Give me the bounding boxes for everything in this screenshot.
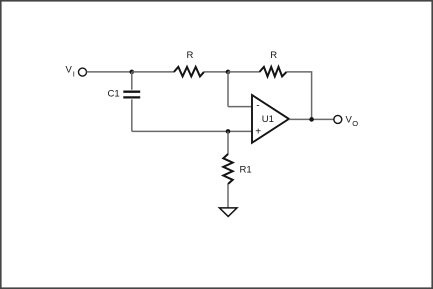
wire node A to resistor R xyxy=(132,71,175,73)
svg-text:I: I xyxy=(73,69,75,78)
wire feedback resistor to corner xyxy=(287,71,313,73)
wire R to node B xyxy=(204,71,228,73)
wire node B down to - input xyxy=(227,72,229,107)
node D junction dot xyxy=(309,117,314,122)
op-amp U1 xyxy=(252,95,289,143)
wire Vi to node A xyxy=(87,71,132,73)
resistor R1 xyxy=(223,154,232,184)
wire to op-amp - input xyxy=(228,106,252,108)
svg-text:R: R xyxy=(187,50,194,61)
wire bottom rail to op-amp + input xyxy=(132,130,252,132)
svg-text:O: O xyxy=(352,119,358,128)
wire feedback corner down to output node xyxy=(311,71,313,119)
resistor R (feedback) xyxy=(260,67,287,77)
svg-text:R1: R1 xyxy=(240,165,252,176)
svg-text:C1: C1 xyxy=(108,88,120,99)
label Vi xyxy=(66,65,75,79)
wire node B to feedback resistor xyxy=(228,71,260,73)
svg-text:-: - xyxy=(256,101,259,112)
svg-text:U1: U1 xyxy=(262,114,274,125)
node C junction dot xyxy=(226,129,231,134)
svg-text:V: V xyxy=(66,65,73,76)
wire node C down to R1 xyxy=(227,131,229,154)
node A junction dot xyxy=(130,70,135,75)
node B junction dot xyxy=(226,70,231,75)
ground xyxy=(219,208,237,217)
node Vi terminal xyxy=(79,68,87,76)
svg-text:+: + xyxy=(255,126,261,137)
wire R1 to ground xyxy=(227,184,229,208)
node Vo terminal xyxy=(334,115,342,123)
label Vo xyxy=(346,114,359,128)
resistor R (input) xyxy=(174,67,204,77)
svg-text:R: R xyxy=(270,50,277,61)
capacitor C1 xyxy=(123,72,140,131)
wire op-amp output to Vo xyxy=(289,118,334,120)
